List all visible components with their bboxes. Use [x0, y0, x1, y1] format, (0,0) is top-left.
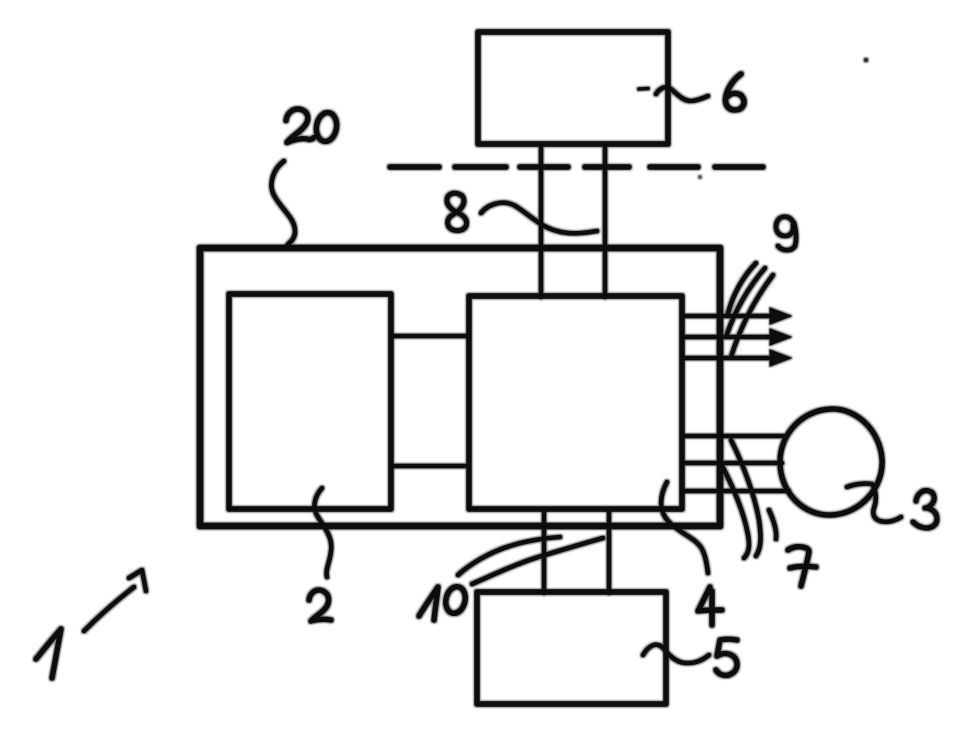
label 6: [725, 74, 744, 110]
wire 2-to-4 lower: [391, 464, 469, 469]
label 1: [36, 629, 61, 678]
speck top right: [864, 58, 868, 62]
wire 4-to-5 left vertical: [542, 509, 547, 593]
block 2 (left inner box): [229, 294, 391, 509]
leader curves from 10 to wires: [458, 537, 603, 584]
leader squiggle from box 4 to label 4: [661, 482, 708, 573]
arrow output 2: [682, 329, 791, 345]
leader curves from 9 to arrows: [727, 263, 773, 357]
wire 2-to-4 upper: [391, 334, 469, 339]
label 20: [286, 109, 339, 143]
block 6 (top box): [478, 32, 668, 144]
label 8: [447, 193, 467, 230]
block 20 (outer housing box): [200, 248, 720, 526]
wire 4-to-3 middle: [682, 461, 782, 466]
dashed boundary line: [390, 164, 763, 169]
wire 6-to-4 left vertical: [539, 145, 544, 297]
leader squiggle to label 3: [847, 484, 901, 522]
leader squiggle from 20 to outer box: [272, 161, 295, 247]
arrow output 3: [682, 350, 791, 366]
leader tilde to label 6: [639, 87, 708, 101]
leader squiggle from box 2 to label 2: [315, 488, 332, 577]
leader tilde to label 5: [643, 645, 709, 663]
arrow output 1: [682, 308, 791, 324]
leader squiggle from 8 to wires: [481, 203, 597, 234]
label 2: [309, 590, 331, 621]
label 3: [913, 491, 937, 528]
wire 6-to-4 right vertical: [603, 145, 608, 297]
block 4 (right inner box): [469, 296, 682, 509]
wire 4-to-3 bottom: [682, 489, 789, 494]
motor circle 3: [780, 409, 882, 515]
wire 4-to-5 right vertical: [607, 509, 612, 593]
label 5: [716, 639, 737, 675]
leader curves from 7 to wires: [720, 440, 776, 558]
wire 4-to-3 top: [682, 434, 786, 439]
label 4: [698, 587, 722, 625]
label 7: [788, 547, 816, 586]
speck near box 6: [699, 176, 702, 179]
leader arrow from 1: [84, 570, 146, 631]
label 9: [776, 217, 796, 250]
block 5 (bottom box): [477, 592, 666, 704]
label 10: [419, 585, 468, 620]
